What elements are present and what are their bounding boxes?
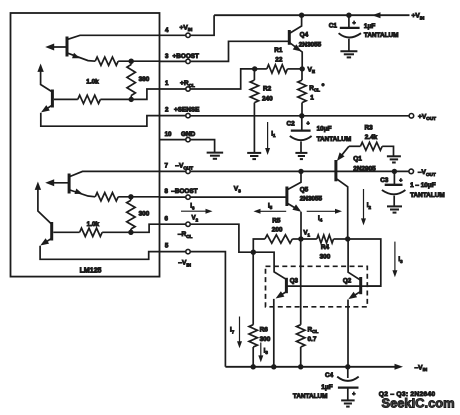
svg-text:4: 4 — [165, 27, 169, 34]
svg-text:TANTALUM: TANTALUM — [410, 192, 445, 199]
svg-text:+: + — [307, 121, 310, 127]
svg-text:+BOOST: +BOOST — [173, 53, 200, 60]
svg-text:240: 240 — [262, 96, 273, 103]
svg-text:R6: R6 — [260, 326, 269, 333]
svg-text:+: + — [352, 391, 355, 397]
svg-text:+SENSE: +SENSE — [174, 107, 200, 114]
svg-text:2N3055: 2N3055 — [300, 195, 323, 202]
svg-text:1μF: 1μF — [321, 384, 332, 391]
svg-text:300: 300 — [260, 336, 271, 343]
svg-text:LM125: LM125 — [80, 267, 102, 274]
svg-text:+: + — [353, 20, 356, 26]
svg-text:TANTALUM: TANTALUM — [293, 393, 328, 400]
svg-text:1: 1 — [310, 95, 314, 102]
svg-text:C2: C2 — [287, 121, 296, 128]
svg-text:TANTALUM: TANTALUM — [364, 32, 399, 39]
svg-text:1.0k: 1.0k — [86, 79, 99, 86]
svg-text:R5: R5 — [272, 217, 281, 224]
svg-text:Q4: Q4 — [300, 32, 309, 39]
svg-text:1: 1 — [165, 80, 169, 87]
svg-text:R2: R2 — [263, 86, 272, 93]
svg-text:1μF: 1μF — [364, 23, 375, 30]
svg-text:2N2905: 2N2905 — [353, 166, 376, 173]
svg-text:1 – 10μF: 1 – 10μF — [410, 182, 436, 189]
svg-text:C4: C4 — [325, 372, 334, 379]
svg-text:8: 8 — [165, 188, 169, 195]
svg-text:6: 6 — [165, 215, 169, 222]
svg-text:22: 22 — [275, 57, 283, 64]
svg-text:Q1: Q1 — [353, 155, 362, 162]
svg-text:R3: R3 — [365, 125, 374, 132]
svg-text:5: 5 — [165, 243, 169, 250]
svg-text:300: 300 — [139, 211, 150, 218]
svg-text:1.0k: 1.0k — [87, 221, 100, 228]
svg-text:10μF: 10μF — [317, 126, 332, 133]
svg-text:10: 10 — [165, 131, 172, 138]
svg-text:GND: GND — [181, 131, 196, 138]
svg-text:300: 300 — [320, 253, 331, 260]
svg-text:C3: C3 — [380, 177, 389, 184]
svg-text:3: 3 — [165, 53, 169, 60]
svg-text:Q3: Q3 — [290, 278, 299, 285]
svg-text:Q5: Q5 — [300, 187, 309, 194]
svg-text:2.4k: 2.4k — [365, 134, 378, 141]
svg-text:380: 380 — [139, 76, 150, 83]
svg-text:2: 2 — [165, 107, 169, 114]
svg-text:0.7: 0.7 — [308, 336, 317, 343]
svg-text:2N3055: 2N3055 — [299, 42, 322, 49]
svg-text:–BOOST: –BOOST — [171, 188, 197, 195]
svg-text:SeekIC.com: SeekIC.com — [382, 396, 455, 411]
svg-text:200: 200 — [272, 226, 283, 233]
svg-text:7: 7 — [165, 163, 169, 170]
svg-text:Q2: Q2 — [343, 278, 352, 285]
svg-text:C1: C1 — [329, 23, 338, 30]
svg-text:R1: R1 — [274, 47, 283, 54]
svg-text:+: + — [399, 178, 402, 184]
svg-text:R4: R4 — [321, 244, 330, 251]
svg-text:TANTALUM: TANTALUM — [317, 136, 352, 143]
